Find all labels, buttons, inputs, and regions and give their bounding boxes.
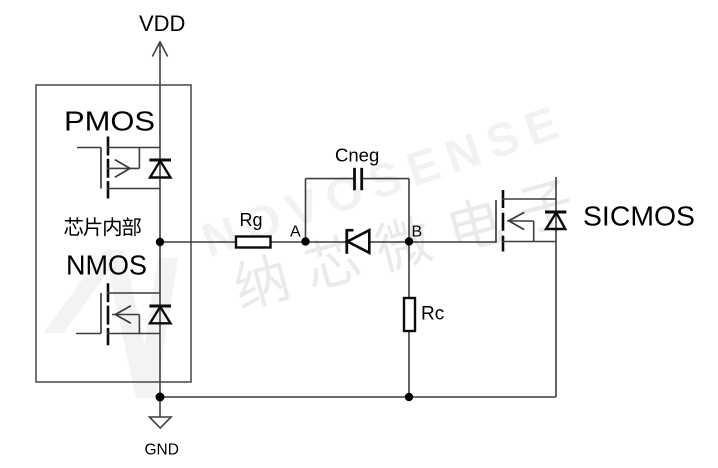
svg-text:GND: GND: [145, 442, 179, 459]
svg-text:A: A: [290, 224, 301, 241]
svg-text:SICMOS: SICMOS: [583, 201, 695, 232]
svg-text:NMOS: NMOS: [66, 250, 147, 281]
svg-text:Rg: Rg: [240, 210, 263, 230]
svg-text:Rc: Rc: [421, 304, 444, 325]
svg-text:PMOS: PMOS: [64, 106, 155, 137]
svg-text:VDD: VDD: [139, 11, 185, 36]
svg-text:Cneg: Cneg: [335, 145, 379, 166]
svg-text:B: B: [412, 224, 423, 241]
